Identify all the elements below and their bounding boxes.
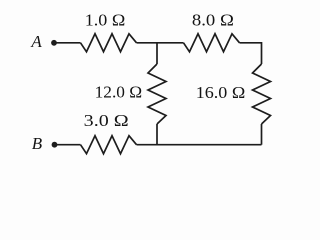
svg-text:3.0 Ω: 3.0 Ω bbox=[84, 111, 129, 130]
svg-text:1.0 Ω: 1.0 Ω bbox=[85, 10, 126, 29]
node B bbox=[32, 134, 58, 153]
resistor 8.0 ohm bbox=[184, 34, 240, 52]
resistor 12.0 ohm bbox=[148, 64, 166, 124]
wire B to R3 bbox=[55, 144, 81, 146]
svg-text:A: A bbox=[30, 32, 42, 51]
svg-text:8.0 Ω: 8.0 Ω bbox=[192, 11, 234, 30]
junction node (top tee) bbox=[156, 43, 158, 64]
bottom wire R3 to right rail bbox=[137, 144, 262, 146]
wire A to R1 bbox=[54, 42, 81, 44]
wire R12 bottom stub bbox=[156, 124, 158, 145]
wire right rail bottom bbox=[261, 124, 263, 145]
svg-text:B: B bbox=[32, 134, 43, 153]
resistor 1.0 ohm bbox=[81, 34, 137, 52]
resistor 3.0 ohm bbox=[81, 136, 137, 154]
svg-text:16.0 Ω: 16.0 Ω bbox=[196, 83, 246, 102]
node A bbox=[30, 32, 56, 51]
svg-text:12.0 Ω: 12.0 Ω bbox=[95, 82, 143, 101]
wire R2 to top-right corner bbox=[240, 43, 262, 64]
wire R1 to junction to R2 bbox=[137, 42, 184, 44]
resistor 16.0 ohm bbox=[253, 64, 271, 124]
